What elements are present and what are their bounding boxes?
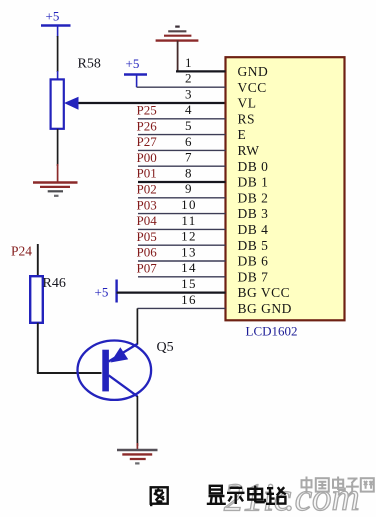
wire (Q5 collector to ground) bbox=[136, 396, 138, 450]
svg-text:VL: VL bbox=[238, 96, 257, 111]
watermark 21ic.com (decorative) bbox=[224, 476, 360, 519]
wire (pin 13 stub) bbox=[138, 260, 226, 262]
svg-text:9: 9 bbox=[185, 181, 193, 196]
svg-text:2: 2 bbox=[185, 71, 193, 86]
svg-text:DB 1: DB 1 bbox=[238, 175, 269, 190]
ground (below Q5) bbox=[117, 450, 158, 463]
svg-text:DB 5: DB 5 bbox=[238, 238, 269, 253]
svg-text:+5: +5 bbox=[126, 56, 140, 71]
power +5 (pin 15 BG VCC) bbox=[95, 280, 117, 303]
wire (pin 11 stub) bbox=[138, 228, 226, 230]
svg-text:BG GND: BG GND bbox=[238, 301, 292, 316]
transistor Q5 (PNP) bbox=[78, 341, 152, 400]
svg-text:13: 13 bbox=[181, 244, 197, 259]
wire bbox=[57, 129, 59, 182]
ground (top, pin 1 GND) bbox=[156, 27, 199, 41]
svg-text:VCC: VCC bbox=[238, 80, 267, 95]
caption: figure title (drawn CJK glyphs) bbox=[151, 486, 286, 507]
power +5 (pin 2 VCC) bbox=[124, 56, 147, 87]
svg-text:P06: P06 bbox=[137, 245, 158, 260]
svg-text:7: 7 bbox=[185, 150, 193, 165]
svg-text:P24: P24 bbox=[11, 243, 32, 258]
svg-text:P05: P05 bbox=[137, 229, 157, 244]
wire (pin 8 stub) bbox=[138, 181, 226, 183]
svg-text:Q5: Q5 bbox=[157, 340, 174, 355]
wire (R46 to Q5 base) bbox=[37, 323, 102, 373]
svg-text:DB 2: DB 2 bbox=[238, 190, 269, 205]
svg-text:P27: P27 bbox=[137, 134, 158, 149]
svg-text:DB 4: DB 4 bbox=[238, 222, 269, 237]
svg-text:8: 8 bbox=[185, 165, 193, 180]
svg-text:10: 10 bbox=[181, 197, 197, 212]
svg-text:DB 3: DB 3 bbox=[238, 206, 269, 221]
svg-text:6: 6 bbox=[185, 134, 193, 149]
wire (pin 7 stub) bbox=[138, 165, 226, 167]
svg-text:P07: P07 bbox=[137, 261, 158, 276]
svg-text:DB 0: DB 0 bbox=[238, 159, 269, 174]
wire (pin 15 stub) bbox=[117, 292, 226, 294]
svg-text:E: E bbox=[238, 127, 247, 142]
wire (pin 6 stub) bbox=[138, 149, 226, 151]
svg-text:+5: +5 bbox=[46, 9, 60, 24]
svg-text:P04: P04 bbox=[137, 213, 158, 228]
svg-text:RW: RW bbox=[238, 143, 260, 158]
svg-text:1: 1 bbox=[185, 55, 193, 70]
svg-text:14: 14 bbox=[181, 260, 197, 275]
svg-text:3: 3 bbox=[185, 86, 193, 101]
svg-text:15: 15 bbox=[181, 276, 197, 291]
wire (pin 10 stub) bbox=[138, 213, 226, 215]
svg-text:RS: RS bbox=[238, 111, 256, 126]
wire (P24 to R46) bbox=[37, 244, 39, 277]
svg-text:5: 5 bbox=[185, 118, 193, 133]
svg-text:11: 11 bbox=[181, 213, 196, 228]
svg-text:P01: P01 bbox=[137, 166, 157, 181]
wire (pin 16 down to Q5 emitter) bbox=[136, 308, 138, 344]
wire (top ground stem to pin 1) bbox=[177, 41, 179, 72]
wire (pin 1 stub) bbox=[176, 70, 226, 72]
svg-text:R46: R46 bbox=[43, 276, 66, 291]
power +5 (R58 top) bbox=[41, 9, 71, 37]
ground (below R58) bbox=[33, 183, 78, 196]
wire bbox=[57, 36, 59, 80]
resistor R58 (potentiometer body) bbox=[51, 79, 64, 128]
svg-text:R58: R58 bbox=[78, 57, 101, 72]
IC LCD1602 bbox=[226, 57, 345, 320]
svg-text:DB 7: DB 7 bbox=[238, 269, 269, 284]
svg-text:P03: P03 bbox=[137, 197, 157, 212]
resistor R46 bbox=[30, 276, 43, 323]
watermark text (decorative) bbox=[302, 477, 374, 493]
wire (pin 16 stub) bbox=[137, 307, 225, 309]
svg-text:4: 4 bbox=[185, 102, 193, 117]
wire (pin 2 stub) bbox=[137, 86, 226, 88]
svg-text:P00: P00 bbox=[137, 150, 157, 165]
svg-text:16: 16 bbox=[181, 292, 197, 307]
svg-text:P26: P26 bbox=[137, 118, 158, 133]
svg-text:DB 6: DB 6 bbox=[238, 254, 269, 269]
svg-text:BG VCC: BG VCC bbox=[238, 285, 291, 300]
svg-text:LCD1602: LCD1602 bbox=[246, 324, 298, 339]
svg-text:GND: GND bbox=[238, 64, 269, 79]
svg-text:P02: P02 bbox=[137, 182, 157, 197]
wire (pin 14 stub) bbox=[138, 276, 226, 278]
wire (pin 4 stub) bbox=[138, 118, 226, 120]
wire (pin 12 stub) bbox=[138, 244, 226, 246]
svg-text:12: 12 bbox=[181, 229, 197, 244]
svg-text:+5: +5 bbox=[95, 285, 109, 300]
svg-text:P25: P25 bbox=[137, 103, 157, 118]
wire (pin 9 stub) bbox=[138, 197, 226, 199]
wire (pin 5 stub) bbox=[138, 134, 226, 136]
wire (VL net, pin 3 to R58 wiper) bbox=[64, 97, 226, 110]
